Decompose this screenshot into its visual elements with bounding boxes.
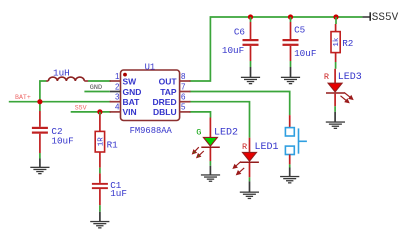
ground (C2) (30, 167, 49, 175)
svg-text:4: 4 (115, 103, 120, 112)
wire: GND stub at pin 2 (84, 91, 109, 93)
pin 3 BAT (110, 101, 121, 103)
node: R2 junction (333, 14, 338, 19)
svg-text:5: 5 (181, 103, 186, 112)
svg-text:10uF: 10uF (51, 136, 73, 147)
switch S1 (pushbutton) (285, 115, 307, 176)
capacitor C1 1uF (92, 168, 127, 222)
svg-text:10uF: 10uF (294, 48, 316, 59)
svg-text:TAP: TAP (160, 87, 177, 97)
node: C6 junction (248, 14, 253, 19)
svg-text:DRED: DRED (153, 97, 177, 107)
LED2 (green) (193, 118, 238, 175)
pin 1 SW (110, 80, 121, 82)
svg-text:LED3: LED3 (338, 72, 362, 83)
svg-text:GND: GND (123, 87, 142, 97)
node: BAT+ junction (37, 99, 42, 104)
svg-text:DBLU: DBLU (153, 107, 177, 117)
svg-text:C6: C6 (234, 27, 245, 38)
svg-text:R: R (324, 72, 329, 82)
wire: BAT+ vertical branch up to inductor, down to C2 (40, 81, 47, 111)
svg-text:1: 1 (115, 72, 120, 81)
op IC U1 FM9688AA (110, 62, 191, 135)
resistor R2 (1k) (331, 17, 353, 69)
wire: pin 7 to switch (190, 92, 290, 116)
svg-text:U1: U1 (145, 62, 156, 72)
ground (C6) (241, 77, 260, 85)
svg-text:FM9688AA: FM9688AA (130, 126, 173, 136)
svg-text:10uF: 10uF (222, 45, 244, 56)
pin 5 DBLU (180, 111, 191, 113)
LED3 (red) (324, 69, 362, 122)
pin 4 VIN (110, 111, 121, 113)
wire: BAT+ horizontal (9, 101, 111, 103)
pin 7 TAP (180, 91, 191, 93)
resistor R1 (1R) (95, 112, 118, 168)
svg-text:7: 7 (181, 82, 186, 91)
svg-text:GND: GND (90, 84, 102, 92)
svg-text:1uH: 1uH (53, 68, 70, 79)
pin 2 GND (110, 91, 121, 93)
node: C5 junction (288, 14, 293, 19)
svg-text:R1: R1 (107, 140, 119, 151)
wire: inductor to pin 1 (88, 80, 111, 82)
emission arrows (green-filled heads) (193, 147, 204, 157)
svg-text:6: 6 (181, 93, 186, 102)
svg-text:SW: SW (123, 76, 138, 86)
LED1 (red) (233, 138, 278, 192)
pin 8 OUT (180, 80, 191, 82)
capacitor C2 10uF (32, 111, 74, 167)
svg-text:1R: 1R (98, 137, 106, 147)
emission arrows (341, 93, 353, 103)
wire: S5V to pin 4 (71, 111, 111, 113)
node: S5V junction (97, 109, 102, 114)
svg-text:R: R (242, 142, 247, 152)
svg-text:R2: R2 (342, 38, 353, 49)
capacitor C5 10uF (283, 17, 317, 77)
svg-text:LED1: LED1 (255, 142, 279, 153)
inductor L (1uH) (46, 68, 88, 81)
port SS5V (362, 12, 398, 24)
svg-text:8: 8 (181, 72, 186, 81)
svg-text:BAT: BAT (123, 97, 141, 107)
svg-text:BAT+: BAT+ (15, 94, 31, 101)
svg-text:G: G (196, 127, 201, 137)
capacitor C6 10uF (222, 17, 259, 77)
ground (LED1) (240, 192, 259, 200)
svg-text:SS5V: SS5V (372, 12, 399, 24)
svg-text:1uF: 1uF (110, 188, 127, 199)
svg-text:2: 2 (115, 82, 120, 91)
ground (switch) (280, 176, 299, 184)
svg-text:1k: 1k (333, 37, 341, 47)
svg-text:C5: C5 (294, 24, 305, 35)
wire: pin 5 to LED2 (190, 112, 211, 118)
wire: pin 6 to LED1 (190, 102, 250, 138)
svg-text:LED2: LED2 (214, 128, 238, 139)
ground (C1) (90, 221, 109, 229)
svg-text:OUT: OUT (159, 76, 178, 86)
emission arrows (233, 162, 244, 175)
ground (C5) (281, 77, 300, 85)
svg-text:3: 3 (115, 93, 120, 102)
svg-text:S5V: S5V (75, 105, 87, 112)
ground (LED3) (326, 121, 345, 129)
ground (LED2) (201, 174, 220, 182)
svg-text:VIN: VIN (123, 107, 137, 117)
wire: top SS5V net horizontal + riser to pin 8 (190, 17, 363, 81)
pin 6 DRED (180, 101, 191, 103)
